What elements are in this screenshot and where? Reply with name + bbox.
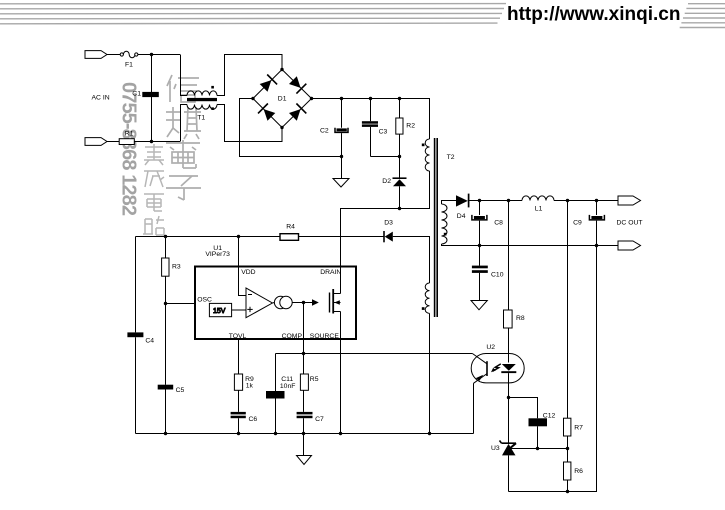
bridge diode bottom-right: [289, 109, 301, 121]
header stripe band right: [680, 4, 725, 28]
node bridge bottom corner: [280, 126, 283, 129]
svg-text:C3: C3: [379, 128, 388, 135]
node drain clamp junction: [398, 207, 401, 210]
svg-text:C2: C2: [320, 128, 329, 135]
ground below rail: [303, 434, 305, 456]
node comp internal junction: [302, 301, 305, 304]
watermark small CJK column (ji cheng dian lu): [143, 144, 164, 235]
wire emitter to ground rail: [473, 383, 475, 433]
wire aux bottom to ground rail: [429, 313, 431, 433]
capacitor C2: [341, 99, 343, 128]
node bridge right corner: [310, 97, 313, 100]
node COMP junction: [302, 352, 305, 355]
node R3 top junction: [164, 235, 167, 238]
node C9 top junction: [595, 199, 598, 202]
char 3: [144, 194, 164, 211]
node bridge left corner: [251, 97, 254, 100]
bridge D1 frame: [253, 70, 312, 128]
opto LED: [502, 364, 516, 371]
op-amp U1 block box: [195, 267, 356, 340]
wire: [107, 141, 119, 143]
svg-text:R7: R7: [574, 424, 583, 431]
fuse F1: [120, 53, 123, 56]
svg-text:D3: D3: [384, 220, 393, 227]
wire to C12: [509, 398, 538, 419]
opto light arrow: [493, 364, 501, 371]
svg-text:C8: C8: [494, 219, 503, 226]
transformer T2 primary: [425, 139, 429, 171]
svg-text:C12: C12: [543, 412, 556, 419]
wire U3 ref line: [511, 448, 568, 450]
wire COMP pin drop: [303, 303, 305, 340]
diode D3: [383, 231, 385, 242]
node R6 bottom junction: [566, 490, 569, 493]
capacitor C8: [479, 201, 481, 216]
watermark big CJK column (xin qi dian zi): [166, 75, 201, 200]
node SOURCE junction: [339, 432, 342, 435]
node C2 bottom junction: [340, 155, 343, 158]
char 1: [144, 144, 164, 165]
node R9 bottom junction: [237, 432, 240, 435]
capacitor C6: [231, 412, 246, 415]
node C12 bottom junction: [536, 447, 539, 450]
svg-text:T1: T1: [197, 115, 205, 122]
connector AC IN top: [85, 51, 107, 59]
svg-text:R6: R6: [574, 468, 583, 475]
svg-text:C1: C1: [132, 91, 141, 98]
wire: [138, 54, 180, 56]
capacitor C10: [479, 246, 481, 266]
svg-text:R3: R3: [172, 264, 181, 271]
char 2: [166, 107, 201, 139]
wire COMP to opto collector: [304, 353, 473, 355]
reference 15V box: [209, 303, 231, 316]
op-amp error amp: [246, 288, 272, 318]
capacitor C4 branch: [135, 237, 137, 333]
wire: [134, 141, 180, 143]
capacitor C7: [297, 412, 313, 415]
resistor R6: [567, 449, 569, 463]
node junction: [150, 53, 153, 56]
svg-text:15V: 15V: [213, 308, 226, 315]
inductor L1: [522, 196, 554, 201]
node C5 bottom junction: [164, 432, 167, 435]
node C11 bottom junction: [274, 432, 277, 435]
diode D2: [399, 157, 401, 179]
svg-text:R5: R5: [310, 376, 319, 383]
wire T1 to bridge: [217, 55, 282, 142]
node R2 top junction: [398, 97, 401, 100]
char 2: [144, 171, 164, 187]
svg-text:http://www.xinqi.cn: http://www.xinqi.cn: [507, 4, 680, 25]
resistor R3: [165, 237, 167, 259]
connector DC OUT top: [618, 196, 641, 205]
resistor R7: [567, 201, 569, 419]
svg-text:C7: C7: [315, 416, 324, 423]
capacitor C3: [370, 99, 372, 122]
capacitor C11: [275, 354, 277, 392]
resistor R1: [119, 139, 134, 145]
char 4: [143, 216, 164, 235]
svg-text:R2: R2: [406, 122, 415, 129]
node LED cathode junction: [507, 396, 510, 399]
node R7 top junction: [566, 199, 569, 202]
resistor R9: [234, 374, 242, 390]
char 3: [166, 140, 200, 168]
svg-text:0755-8368 1282: 0755-8368 1282: [118, 82, 140, 216]
connector DC OUT bottom: [618, 241, 641, 250]
svg-text:R4: R4: [286, 224, 295, 231]
node C3 top junction: [369, 97, 372, 100]
svg-text:DC OUT: DC OUT: [617, 219, 643, 226]
wire OSC: [166, 303, 196, 305]
svg-text:T2: T2: [447, 154, 455, 161]
node OSC junction: [164, 302, 167, 305]
resistor R8: [504, 310, 513, 328]
svg-text:SOURCE: SOURCE: [310, 333, 340, 340]
svg-text:TOVL: TOVL: [229, 333, 247, 340]
wire DC+ rail: [312, 99, 430, 140]
node R2 bottom junction: [398, 155, 401, 158]
transformer T1: [187, 91, 217, 96]
svg-text:L1: L1: [535, 206, 543, 213]
current source U1: [272, 302, 274, 305]
capacitor C1: [142, 92, 159, 97]
connector AC IN bottom: [85, 138, 107, 146]
capacitor C9: [596, 201, 598, 216]
node C9 bottom junction: [595, 244, 598, 247]
svg-text:F1: F1: [125, 62, 133, 69]
svg-text:D4: D4: [457, 213, 466, 220]
svg-text:10nF: 10nF: [280, 383, 296, 390]
node divider junction: [566, 447, 569, 450]
svg-text:D1: D1: [278, 95, 287, 102]
resistor R2: [399, 99, 401, 119]
wire: [107, 54, 120, 56]
svg-text:R1: R1: [125, 130, 134, 137]
char 1: [167, 75, 199, 102]
wire DC- return: [240, 99, 342, 157]
wire VDD pin drop: [238, 237, 240, 267]
regulator U3: [508, 398, 510, 444]
svg-text:AC IN: AC IN: [92, 95, 110, 102]
svg-text:VDD: VDD: [241, 269, 255, 276]
node VDD pin junction: [237, 235, 240, 238]
secondary: diode D4: [442, 201, 457, 205]
bridge diode top-left: [260, 80, 272, 92]
wire COMP node below box: [303, 339, 305, 374]
svg-text:1k: 1k: [246, 383, 254, 390]
svg-text:VIPer73: VIPer73: [205, 251, 230, 258]
resistor R5: [300, 374, 308, 390]
opto phototransistor: [486, 361, 488, 376]
capacitor C5: [158, 385, 174, 390]
node bridge top corner: [280, 68, 283, 71]
optocoupler U2 body: [471, 354, 524, 383]
svg-text:C6: C6: [249, 416, 258, 423]
wire VDD rail: [136, 236, 281, 238]
capacitor C12: [529, 418, 548, 426]
wire secondary bottom rail: [442, 244, 619, 246]
wire bottom feedback return: [509, 246, 597, 492]
bridge diode bottom-left: [264, 109, 276, 121]
node C7 bottom junction: [302, 432, 305, 435]
wire primary ground rail: [136, 433, 474, 435]
ground below C10: [471, 301, 487, 310]
node C8 top junction: [478, 199, 481, 202]
node R8 top junction: [507, 199, 510, 202]
svg-text:DRAIN: DRAIN: [320, 269, 341, 276]
wire TOVL branch: [238, 339, 240, 374]
node junction: [150, 140, 153, 143]
svg-text:OSC: OSC: [197, 296, 212, 303]
wire SOURCE pin drop: [340, 339, 342, 434]
svg-text:C4: C4: [145, 338, 154, 345]
char 4: [166, 176, 201, 200]
wire R8 feedback branch: [508, 201, 510, 311]
svg-text:C11: C11: [281, 376, 293, 383]
svg-text:C10: C10: [491, 272, 504, 279]
ground below C2: [341, 157, 343, 179]
svg-text:U3: U3: [491, 445, 500, 452]
svg-text:C9: C9: [573, 219, 582, 226]
resistor R4: [280, 234, 299, 241]
node aux bottom junction: [428, 432, 431, 435]
svg-text:R8: R8: [516, 315, 525, 322]
transformer T2 aux winding: [425, 283, 429, 313]
transformer T2 secondary: [442, 204, 448, 244]
wire comp node: [292, 302, 312, 304]
wire C1 branch: [151, 55, 153, 142]
wire VDD internal: [239, 267, 247, 296]
svg-text:U2: U2: [486, 344, 495, 351]
svg-text:COMP: COMP: [282, 333, 303, 340]
wire secondary top rail: [469, 200, 522, 202]
node C10 top junction: [478, 244, 481, 247]
transformer T2 core: [434, 138, 436, 317]
header stripe band left: [0, 4, 506, 24]
svg-text:C5: C5: [176, 387, 185, 394]
transistor Q mosfet: [329, 293, 331, 313]
wire T1 left leads: [181, 55, 188, 142]
wire drain net: [341, 171, 430, 267]
bridge diode top-right: [289, 76, 301, 88]
svg-text:D2: D2: [382, 178, 391, 185]
